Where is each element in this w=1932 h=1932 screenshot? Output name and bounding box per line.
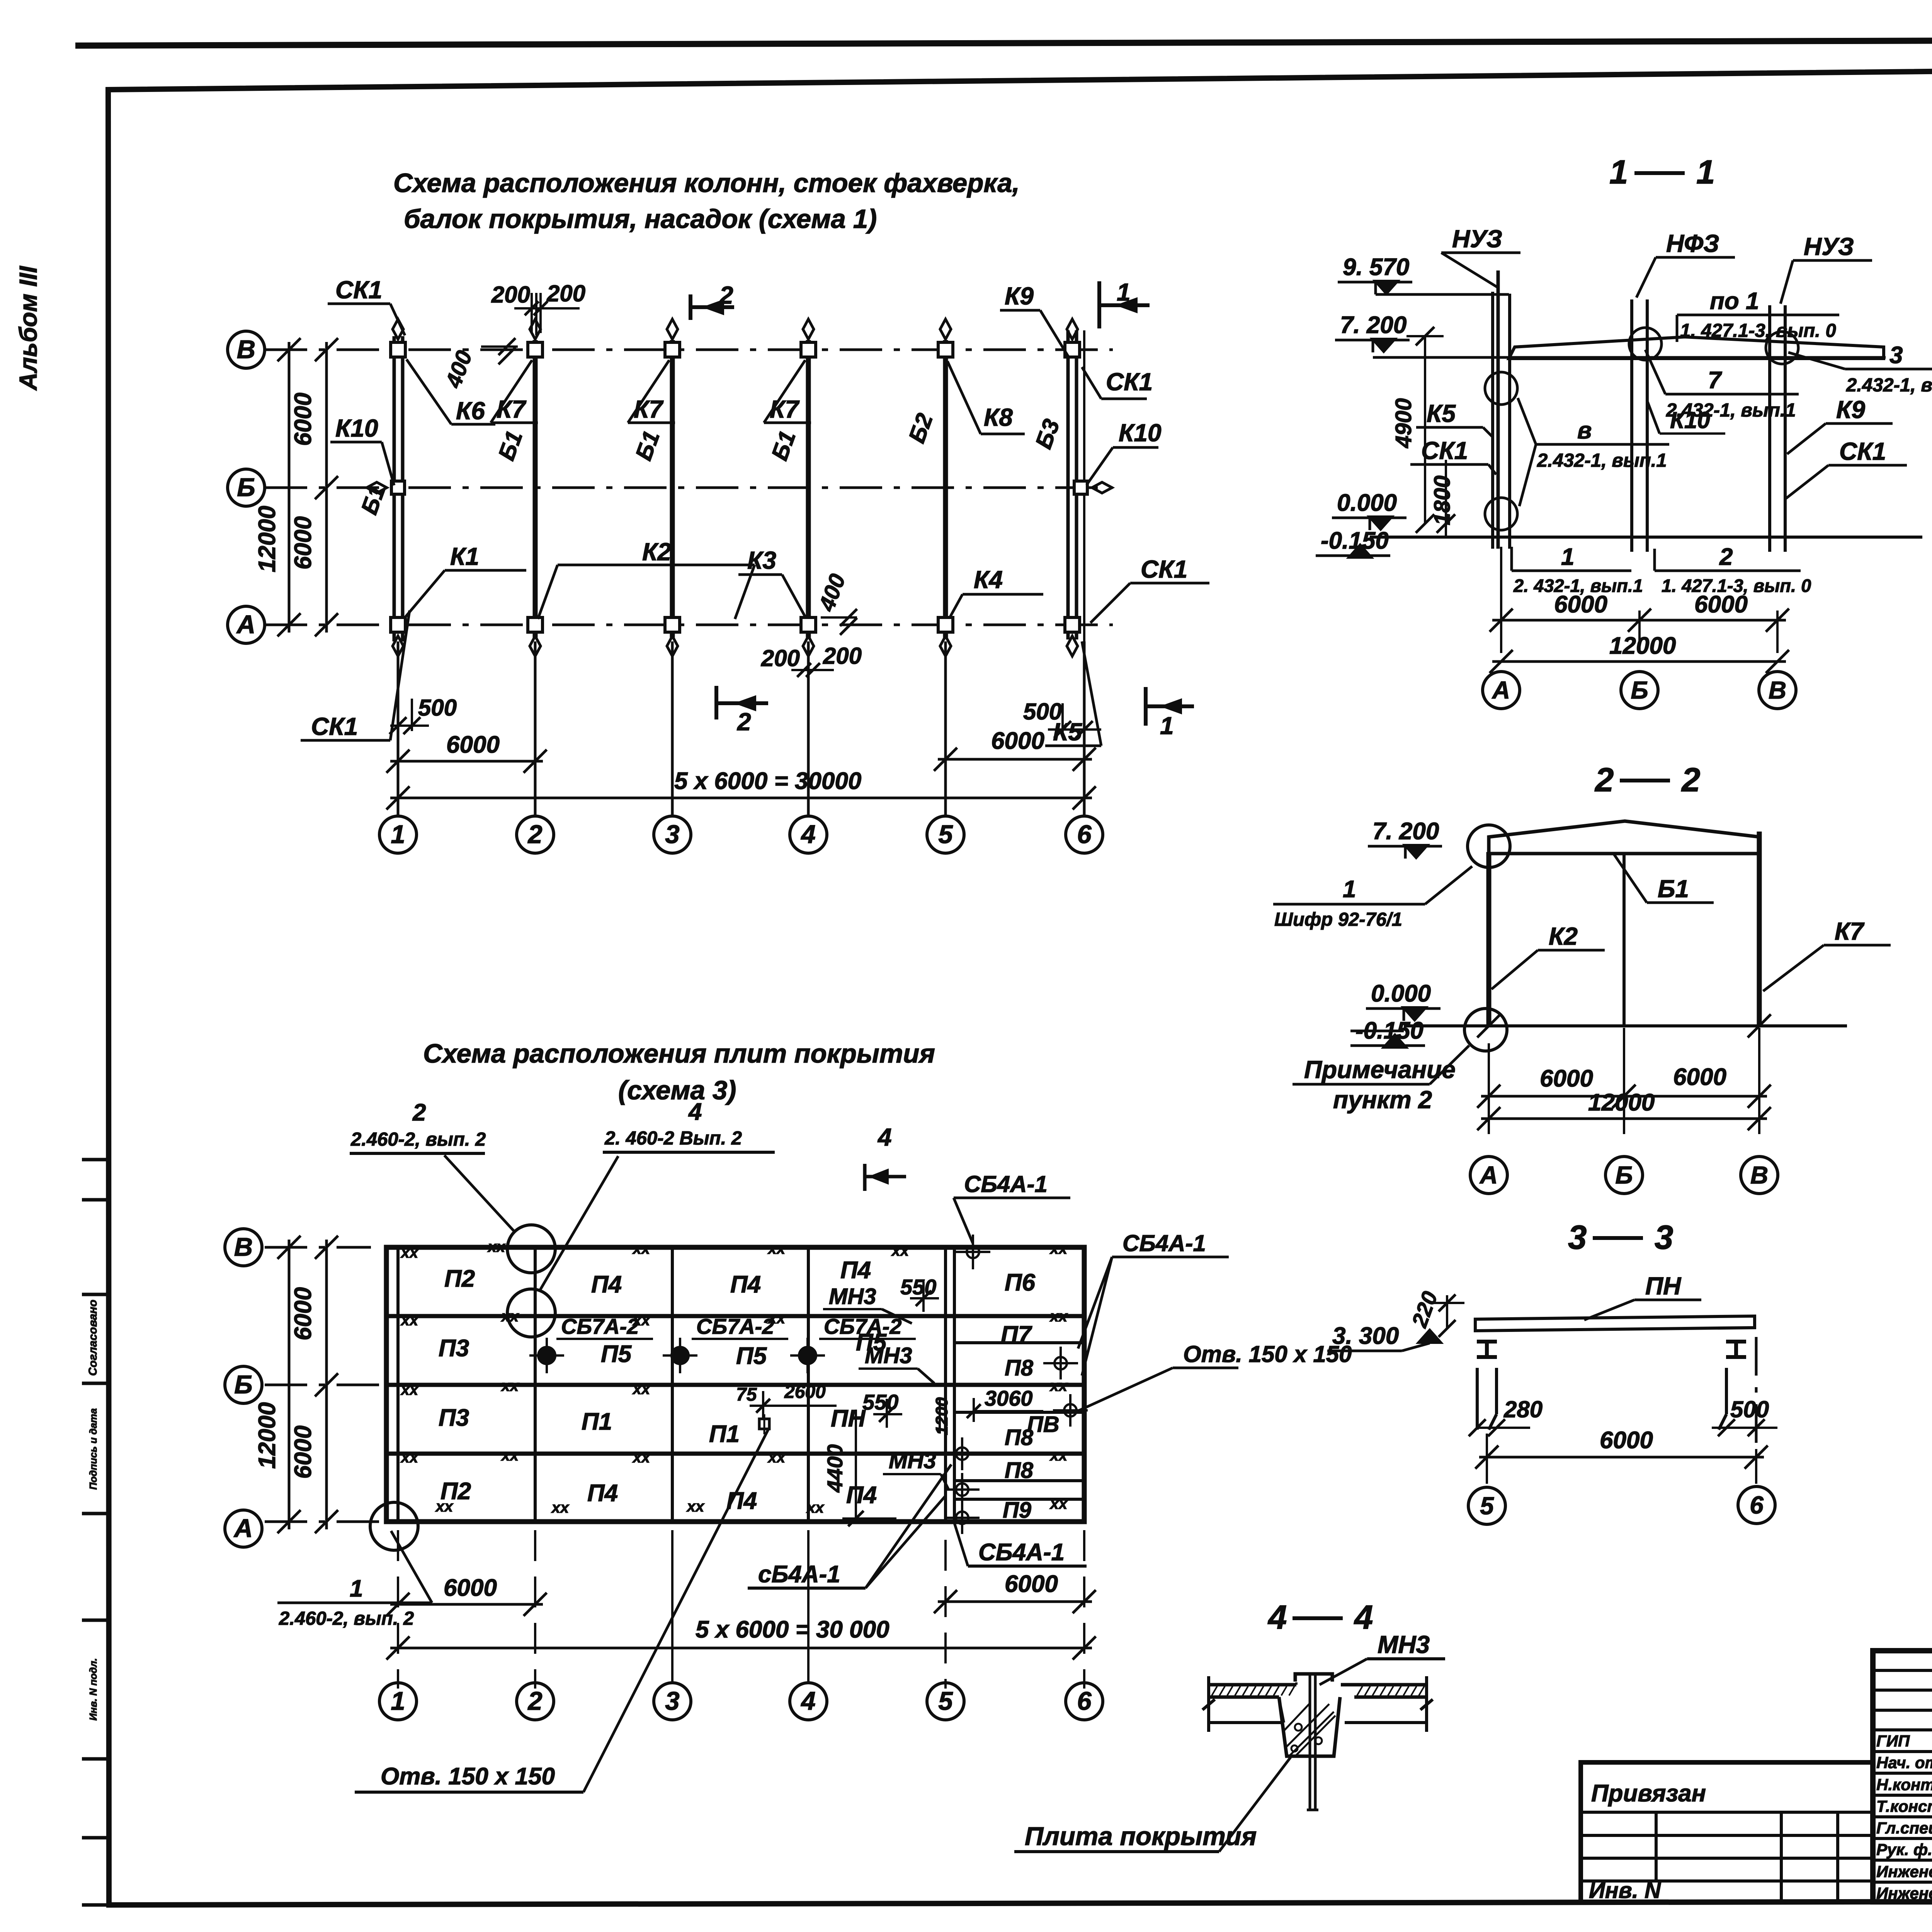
- attach table cols: [1655, 1812, 1658, 1881]
- svg-text:xx: xx: [767, 1240, 786, 1257]
- plate row line 2 scheme3: [386, 1314, 1084, 1318]
- svg-text:К10: К10: [1119, 419, 1162, 447]
- grid circle 3 scheme3: [654, 1683, 691, 1720]
- svg-text:2: 2: [1719, 544, 1733, 570]
- svg-text:6000: 6000: [1673, 1064, 1726, 1090]
- dim 1800 section 1-1: [1445, 460, 1447, 538]
- cross circles row2 scheme3: [538, 1347, 555, 1364]
- svg-text:4: 4: [1354, 1599, 1373, 1636]
- svg-text:К5: К5: [1427, 400, 1456, 427]
- column axis В section 2-2: [1757, 832, 1762, 1026]
- svg-text:Подпись и дата: Подпись и дата: [87, 1408, 99, 1490]
- svg-text:6000: 6000: [1554, 591, 1607, 618]
- svg-text:4: 4: [1267, 1599, 1287, 1636]
- svg-text:4400: 4400: [823, 1444, 847, 1493]
- column К5/СК1 on axis А section 1-1: [1491, 292, 1494, 549]
- svg-text:6000: 6000: [1540, 1065, 1593, 1092]
- fachwerk diamond axis 3 row А: [667, 636, 678, 656]
- bolt section 4-4: [1309, 1674, 1311, 1810]
- right strip row lines scheme3: [954, 1341, 1084, 1344]
- svg-text:xx: xx: [400, 1244, 419, 1261]
- beam Б1 on axis 1: [393, 336, 396, 641]
- svg-text:500: 500: [1730, 1396, 1769, 1422]
- rib trapezoid section 4-4: [1279, 1697, 1340, 1756]
- column on axis Б section 1-1: [1630, 299, 1633, 552]
- beam Б1 on axis 2: [533, 340, 538, 638]
- svg-text:4900: 4900: [1391, 398, 1416, 448]
- column К on axis 5 row А: [938, 617, 953, 632]
- column К on axis 3 row В: [665, 342, 680, 357]
- plate field left double edge: [396, 1247, 400, 1522]
- svg-text:Отв. 150 х 150: Отв. 150 х 150: [1183, 1341, 1352, 1367]
- plate column line axis 2 scheme3: [534, 1247, 537, 1522]
- axis circle А: [228, 606, 265, 643]
- grid circle 4 scheme1: [790, 816, 827, 853]
- svg-text:6: 6: [1750, 1491, 1764, 1519]
- roof beam section 2-2: [1489, 821, 1760, 854]
- svg-text:xx: xx: [501, 1447, 519, 1464]
- svg-text:1200: 1200: [932, 1397, 951, 1435]
- left dim line 12000 scheme1: [288, 342, 291, 633]
- svg-text:1: 1: [391, 1687, 405, 1716]
- svg-text:Инженер: Инженер: [1876, 1884, 1932, 1902]
- grid line axis 6 lower: [1083, 641, 1086, 816]
- fachwerk diamond axis 6 row А: [1067, 636, 1078, 656]
- fachwerk diamond axis 4 row В: [803, 319, 814, 339]
- svg-text:xx: xx: [400, 1312, 419, 1329]
- svg-text:2600: 2600: [784, 1382, 826, 1402]
- axis circle Б scheme3: [225, 1366, 262, 1403]
- svg-text:Альбом III: Альбом III: [14, 266, 42, 391]
- column К on axis 2 row А: [528, 617, 543, 632]
- svg-text:xx: xx: [632, 1449, 651, 1466]
- stamp sign-table row lines: [1873, 1669, 1932, 1672]
- svg-text:1800: 1800: [1430, 475, 1455, 525]
- svg-text:6000: 6000: [446, 731, 500, 758]
- ground line section 1-1: [1370, 536, 1922, 539]
- dim 6000 bay5-6 scheme3: [944, 1540, 947, 1689]
- svg-text:xx: xx: [400, 1381, 419, 1398]
- svg-text:П3: П3: [439, 1405, 469, 1431]
- axis В line scheme3: [265, 1246, 371, 1249]
- svg-text:6000: 6000: [290, 1287, 316, 1340]
- svg-text:К10: К10: [335, 414, 378, 442]
- svg-text:СБ7А-2: СБ7А-2: [824, 1314, 901, 1338]
- svg-text:xx: xx: [400, 1449, 419, 1466]
- svg-text:6000: 6000: [1005, 1571, 1058, 1597]
- svg-text:xx: xx: [1049, 1447, 1068, 1464]
- beam Б3 on axis 6: [1066, 330, 1070, 639]
- svg-text:Шифр 92-76/1: Шифр 92-76/1: [1274, 909, 1402, 930]
- rib hatch section 4-4: [1287, 1704, 1329, 1747]
- svg-text:К3: К3: [747, 546, 776, 574]
- svg-text:5 х 6000 = 30 000: 5 х 6000 = 30 000: [696, 1616, 889, 1643]
- svg-text:К6: К6: [456, 397, 485, 425]
- svg-text:в: в: [1577, 417, 1592, 444]
- svg-text:12000: 12000: [1588, 1089, 1655, 1116]
- svg-text:МН3: МН3: [829, 1284, 876, 1309]
- detail circle base: [1464, 1009, 1507, 1051]
- dim 4900 section 1-1: [1424, 336, 1426, 524]
- left margin strip: [82, 1160, 108, 1905]
- svg-text:xx: xx: [632, 1312, 651, 1329]
- svg-text:1: 1: [1561, 544, 1574, 570]
- column line axis6 section 3-3: [1725, 1368, 1728, 1414]
- grid circle 3 scheme1: [654, 816, 691, 853]
- svg-text:200: 200: [823, 643, 862, 669]
- svg-text:2. 460-2 Вып. 2: 2. 460-2 Вып. 2: [604, 1128, 742, 1149]
- svg-text:Примечание: Примечание: [1304, 1056, 1456, 1083]
- base ticks section 2-2: [1477, 1014, 1500, 1037]
- svg-text:СБ4А-1: СБ4А-1: [964, 1171, 1048, 1197]
- slab end ticks section 4-4: [1207, 1676, 1210, 1732]
- column К on axis 1 row В: [391, 342, 405, 357]
- svg-text:по 1: по 1: [1710, 288, 1759, 315]
- anchor plate top section 4-4: [1295, 1674, 1332, 1682]
- svg-text:СК1: СК1: [1141, 555, 1187, 583]
- fachwerk diamond axis 1 row В: [393, 319, 403, 339]
- axis В line: [265, 349, 1113, 351]
- svg-text:А: А: [1492, 676, 1510, 704]
- svg-text:Инженер: Инженер: [1876, 1862, 1932, 1881]
- roof beam section 1-1: [1509, 337, 1884, 359]
- beam Б2 on axis 5: [943, 340, 948, 638]
- svg-text:Инв. N: Инв. N: [1589, 1878, 1661, 1903]
- svg-text:5: 5: [938, 820, 953, 849]
- dim 6000+6000 section 2-2: [1488, 1043, 1490, 1134]
- grid circle 4 scheme3: [790, 1683, 827, 1720]
- slab left section 4-4: [1209, 1683, 1296, 1687]
- svg-text:200: 200: [546, 281, 585, 306]
- dim 12000 section 1-1: [1492, 660, 1786, 663]
- svg-text:2: 2: [719, 281, 733, 309]
- column К on axis 4 row В: [801, 342, 816, 357]
- fachwerk diamond axis 2 row В: [530, 319, 541, 339]
- svg-text:В: В: [1750, 1161, 1768, 1189]
- slab right section 4-4: [1341, 1683, 1427, 1687]
- svg-text:Б: Б: [1615, 1161, 1633, 1189]
- svg-text:xx: xx: [551, 1499, 570, 1516]
- grid circle 1 scheme1: [379, 816, 417, 853]
- svg-text:А: А: [1479, 1161, 1498, 1189]
- grid circle 1 scheme3: [379, 1683, 417, 1720]
- ground line section 2-2: [1404, 1024, 1847, 1027]
- grid circle 2 scheme3: [517, 1683, 554, 1720]
- grid circle 6 scheme3: [1066, 1683, 1103, 1720]
- axis Б line: [265, 486, 1113, 489]
- axis circle В section 1-1: [1759, 672, 1796, 709]
- plate column line right strip scheme3: [953, 1247, 956, 1522]
- svg-text:П4: П4: [846, 1482, 877, 1509]
- svg-text:Рук. ф.: Рук. ф.: [1876, 1840, 1932, 1859]
- svg-text:3: 3: [1655, 1219, 1673, 1256]
- svg-text:xx: xx: [435, 1498, 454, 1515]
- attach table rows: [1581, 1811, 1873, 1814]
- svg-text:3: 3: [1889, 342, 1903, 369]
- svg-text:СБ4А-1: СБ4А-1: [978, 1539, 1065, 1566]
- dim 5x6000=30000 scheme1: [390, 797, 1092, 799]
- svg-text:1: 1: [391, 820, 405, 849]
- svg-text:К10: К10: [1670, 407, 1710, 433]
- dim 6000+6000 section 1-1: [1500, 547, 1502, 653]
- left margin dividers: [82, 1198, 108, 1202]
- svg-text:Отв. 150 х 150: Отв. 150 х 150: [381, 1763, 555, 1790]
- column К on axis 2 row В: [528, 342, 543, 357]
- svg-text:П4: П4: [730, 1271, 761, 1298]
- svg-text:2.432-1, вып.1: 2.432-1, вып.1: [1846, 375, 1932, 396]
- svg-text:СБ4А-1: СБ4А-1: [1122, 1230, 1206, 1256]
- svg-text:3: 3: [665, 1687, 679, 1716]
- svg-text:xx: xx: [1049, 1495, 1068, 1512]
- plate field outline scheme3: [386, 1247, 1084, 1522]
- svg-text:К2: К2: [1549, 922, 1578, 950]
- svg-text:2.460-2, вып. 2: 2.460-2, вып. 2: [350, 1129, 486, 1150]
- svg-text:xx: xx: [686, 1498, 705, 1515]
- svg-text:xx: xx: [1049, 1378, 1068, 1395]
- svg-text:СБ7А-2: СБ7А-2: [696, 1314, 774, 1338]
- svg-text:Гл.спец.: Гл.спец.: [1876, 1819, 1932, 1837]
- dim 12000 section 2-2: [1481, 1117, 1767, 1120]
- svg-text:П4: П4: [587, 1480, 618, 1507]
- svg-text:550: 550: [900, 1275, 936, 1299]
- grid line axis 2 lower: [534, 641, 537, 816]
- fachwerk diamond axis 2 row А: [530, 636, 541, 656]
- fachwerk diamond axis 1 row А: [393, 636, 403, 656]
- opening mark row3 scheme3: [759, 1419, 769, 1429]
- dim 6000 bay1-2 scheme3: [397, 1530, 399, 1689]
- svg-text:П4: П4: [591, 1271, 622, 1298]
- svg-text:6000: 6000: [1600, 1427, 1653, 1454]
- axis circle В section 2-2: [1741, 1156, 1778, 1194]
- svg-text:2: 2: [737, 708, 751, 736]
- grid circle 2 scheme1: [517, 816, 554, 853]
- svg-text:Схема расположения колонн, с: Схема расположения колонн, стоек фахверк…: [393, 168, 1020, 198]
- svg-text:К4: К4: [974, 566, 1003, 594]
- svg-text:550: 550: [862, 1390, 898, 1414]
- column К on axis 3 row А: [665, 617, 680, 632]
- svg-text:1: 1: [1343, 876, 1356, 903]
- dim 6000 section 3-3: [1486, 1434, 1488, 1484]
- svg-text:П1: П1: [709, 1421, 740, 1447]
- svg-text:xx: xx: [1049, 1240, 1068, 1257]
- svg-text:П8: П8: [1005, 1425, 1034, 1450]
- column К on axis 4 row А: [801, 617, 816, 632]
- svg-text:75: 75: [736, 1384, 757, 1405]
- svg-text:xx: xx: [767, 1310, 786, 1327]
- grid line axis 1 lower: [397, 641, 400, 816]
- svg-text:К8: К8: [984, 403, 1013, 431]
- svg-text:МН3: МН3: [889, 1448, 936, 1473]
- svg-text:2: 2: [1681, 761, 1700, 799]
- svg-text:xx: xx: [767, 1449, 786, 1466]
- svg-text:(схема 3): (схема 3): [618, 1075, 736, 1105]
- svg-text:1. 427.1-3, вып. 0: 1. 427.1-3, вып. 0: [1680, 320, 1836, 341]
- svg-text:Привязан: Привязан: [1591, 1780, 1706, 1807]
- svg-text:СК1: СК1: [1421, 437, 1468, 464]
- svg-text:3: 3: [1568, 1219, 1587, 1256]
- left dim line 6000+6000 scheme1: [325, 342, 328, 633]
- svg-text:2: 2: [1594, 761, 1614, 799]
- hatch right slab section 4-4: [1357, 1686, 1362, 1696]
- svg-text:3: 3: [665, 820, 679, 849]
- svg-text:12000: 12000: [254, 506, 281, 572]
- svg-text:П8: П8: [1005, 1458, 1034, 1483]
- svg-text:2.432-1, вып.1: 2.432-1, вып.1: [1537, 450, 1667, 471]
- svg-text:Н.контр.: Н.контр.: [1876, 1776, 1932, 1794]
- column К on axis 1 row А: [391, 617, 405, 632]
- axis circle А section 1-1: [1483, 672, 1520, 709]
- grid circle 5 scheme1: [927, 816, 964, 853]
- svg-text:6: 6: [1077, 820, 1092, 849]
- svg-text:2.460-2, вып. 2: 2.460-2, вып. 2: [279, 1608, 414, 1629]
- dim 400 near А axis4: [821, 616, 857, 619]
- plate row line 4 scheme3: [386, 1452, 1084, 1456]
- svg-text:П4: П4: [840, 1257, 871, 1284]
- svg-text:xx: xx: [632, 1240, 651, 1257]
- fachwerk diamond axis 5 row В: [940, 319, 951, 339]
- svg-text:4: 4: [800, 1687, 815, 1716]
- stamp outer box: [1873, 1651, 1932, 1902]
- svg-text:ПН: ПН: [1645, 1272, 1682, 1300]
- svg-text:Б1: Б1: [1658, 875, 1689, 903]
- svg-text:МН3: МН3: [865, 1343, 912, 1368]
- svg-text:Нач. отд.: Нач. отд.: [1876, 1753, 1932, 1772]
- scan top edge line: [75, 39, 1932, 46]
- slab section 3-3: [1475, 1316, 1755, 1331]
- svg-text:ПН: ПН: [831, 1405, 866, 1432]
- svg-text:12000: 12000: [1609, 633, 1676, 659]
- svg-text:К7: К7: [1835, 917, 1865, 945]
- svg-text:В: В: [234, 1233, 253, 1262]
- section mark 2 bottom: [714, 686, 718, 719]
- svg-text:К2: К2: [642, 538, 671, 566]
- plate row line Б scheme3: [386, 1383, 1084, 1387]
- svg-text:xx: xx: [501, 1378, 519, 1395]
- svg-text:2: 2: [527, 1687, 542, 1716]
- grid lines to circles scheme3: [671, 1530, 673, 1683]
- axis circle Б: [228, 469, 265, 506]
- svg-text:П3: П3: [439, 1335, 469, 1362]
- fachwerk post К10 row Б axis 6: [1074, 481, 1087, 494]
- plate column line axis 3 scheme3: [671, 1247, 674, 1522]
- left dim 6000+6000 scheme3: [325, 1240, 328, 1529]
- svg-text:сБ4А-1: сБ4А-1: [758, 1561, 840, 1588]
- svg-text:4: 4: [800, 820, 815, 849]
- svg-text:пункт 2: пункт 2: [1333, 1086, 1432, 1114]
- svg-text:П9: П9: [1003, 1498, 1031, 1523]
- svg-text:7. 200: 7. 200: [1340, 312, 1406, 338]
- axis А line scheme3: [265, 1520, 383, 1523]
- left dim 12000 scheme3: [288, 1240, 291, 1529]
- svg-text:5 х 6000 = 30000: 5 х 6000 = 30000: [674, 768, 861, 794]
- svg-text:СК1: СК1: [335, 276, 382, 304]
- svg-text:6000: 6000: [444, 1575, 497, 1601]
- svg-text:К9: К9: [1836, 396, 1865, 423]
- svg-text:200: 200: [491, 282, 530, 308]
- svg-text:9. 570: 9. 570: [1343, 254, 1409, 281]
- svg-text:0.000: 0.000: [1371, 980, 1431, 1007]
- svg-text:6000: 6000: [1694, 591, 1748, 618]
- svg-text:6000: 6000: [991, 728, 1044, 754]
- svg-text:А: А: [233, 1514, 253, 1543]
- svg-text:5: 5: [1480, 1492, 1494, 1520]
- axis circle А scheme3: [225, 1510, 262, 1547]
- svg-text:МН3: МН3: [1378, 1631, 1430, 1658]
- dim 220 section 3-3: [1446, 1295, 1448, 1329]
- grid circle 6 section 3-3: [1738, 1486, 1775, 1524]
- dim 6000 bay1-2 scheme1: [397, 736, 399, 808]
- svg-text:СБ7А-2: СБ7А-2: [561, 1314, 639, 1338]
- column К on axis 5 row В: [938, 342, 953, 357]
- column К on axis 6 row А: [1065, 617, 1080, 632]
- fachwerk diamond axis 6 row В: [1067, 319, 1078, 339]
- svg-text:Инв. N подл.: Инв. N подл.: [87, 1658, 99, 1721]
- svg-text:1: 1: [1117, 278, 1131, 306]
- big circle leader 2 scheme3: [507, 1225, 555, 1273]
- svg-text:xx: xx: [487, 1238, 506, 1255]
- dim 4400 rotated scheme3: [855, 1410, 857, 1519]
- svg-text:В: В: [1769, 676, 1786, 704]
- axis circle В: [228, 331, 265, 368]
- svg-text:7. 200: 7. 200: [1372, 818, 1439, 845]
- svg-text:4: 4: [877, 1123, 892, 1151]
- svg-text:200: 200: [761, 645, 800, 671]
- section mark 1 top: [1097, 281, 1101, 328]
- dim 6000 bay5-6 scheme1: [944, 736, 947, 808]
- grid line axis 5 lower: [944, 641, 947, 816]
- fachwerk post К10 row Б axis 1: [391, 481, 405, 494]
- svg-text:Б: Б: [234, 1370, 252, 1399]
- svg-text:6: 6: [1077, 1687, 1092, 1716]
- svg-text:В: В: [237, 335, 255, 364]
- section mark 1 bottom: [1144, 687, 1148, 726]
- attach table box: [1581, 1762, 1873, 1902]
- svg-text:СК1: СК1: [1839, 437, 1886, 465]
- hatch left slab section 4-4: [1212, 1686, 1217, 1696]
- axis circle Б section 2-2: [1605, 1156, 1643, 1194]
- beam Б1 on axis 4: [806, 340, 811, 638]
- svg-text:3060: 3060: [985, 1386, 1033, 1410]
- grid circle 5 scheme3: [927, 1683, 964, 1720]
- svg-text:П5: П5: [601, 1341, 632, 1367]
- grid line axis 4 lower: [807, 641, 810, 816]
- axis А line: [265, 624, 1113, 626]
- svg-text:СК1: СК1: [1106, 368, 1153, 396]
- axis Б line scheme3: [265, 1384, 383, 1386]
- svg-text:ГИП: ГИП: [1876, 1732, 1910, 1750]
- svg-text:К9: К9: [1005, 282, 1034, 310]
- detail circle beam end: [1468, 825, 1510, 867]
- cross circles right strip: [1054, 1357, 1067, 1369]
- grid line axis 3 lower: [671, 641, 674, 816]
- svg-text:1: 1: [1160, 712, 1174, 740]
- svg-text:НУЗ: НУЗ: [1804, 233, 1854, 260]
- I-beam column 5 section 3-3: [1477, 1340, 1497, 1344]
- grid circle 5 section 3-3: [1468, 1487, 1505, 1524]
- svg-text:1: 1: [1609, 153, 1628, 191]
- svg-text:5: 5: [938, 1687, 953, 1716]
- svg-text:500: 500: [1023, 699, 1062, 724]
- section mark 2 top: [689, 294, 692, 320]
- svg-text:2: 2: [412, 1099, 426, 1126]
- svg-text:П1: П1: [582, 1408, 612, 1435]
- dim 400 near В axis2: [481, 345, 518, 348]
- svg-text:Схема расположения плит: Схема расположения плит покрытия: [423, 1039, 935, 1068]
- svg-text:К1: К1: [450, 543, 479, 570]
- svg-text:Т.констр: Т.констр: [1876, 1797, 1932, 1815]
- svg-text:12000: 12000: [254, 1402, 281, 1469]
- column line axis5 section 3-3: [1476, 1368, 1479, 1430]
